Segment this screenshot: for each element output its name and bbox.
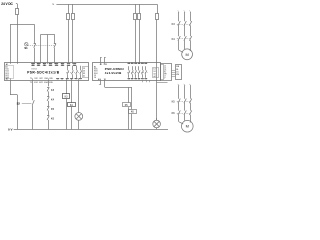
svg-text:24 V DC: 24 V DC: [1, 2, 13, 6]
wire A2 down: [10, 80, 12, 95]
wire S2 branch lower: [32, 105, 34, 129]
wire A1 drop: [10, 25, 12, 63]
U2 top stub A1: [100, 57, 102, 62]
wire 24VDC to fuse: [16, 3, 17, 5]
wire S2 actuator link: [22, 103, 32, 105]
svg-text:S12: S12: [34, 78, 37, 80]
wire 33r to module: [135, 20, 137, 63]
fuse F6: [156, 14, 159, 20]
svg-text:22: 22: [61, 65, 63, 67]
motor M2: [182, 120, 194, 132]
wire coil K6 lower: [131, 114, 133, 130]
wire 23 to module: [72, 20, 74, 63]
contactor coil K4: [68, 103, 76, 107]
U2 terminal stubs: [100, 62, 102, 64]
wire S11 drop: [17, 25, 19, 63]
svg-text:44: 44: [153, 76, 155, 78]
3-phase supply hooks top: [178, 11, 179, 13]
wire lamp2 upper: [156, 118, 158, 120]
wire lamp1 lower: [78, 120, 80, 129]
wires 3-phase lower upper segment: [178, 85, 180, 99]
wire S13 drop: [47, 35, 49, 63]
K5 contacts dashed link: [177, 101, 190, 103]
wire bus2 horizontal: [40, 34, 54, 36]
wire lamp1 upper: [78, 80, 80, 113]
wires into motor2: [178, 115, 180, 122]
indicator lamp H2: [153, 120, 161, 128]
U1 inner function block: [5, 66, 14, 79]
wire bus1 horizontal: [10, 24, 35, 26]
svg-text:4x1/2x2/B: 4x1/2x2/B: [105, 71, 122, 75]
wire coil K3 lower: [66, 98, 68, 129]
svg-text:M: M: [186, 124, 189, 129]
U2 bottom terminal labels: [127, 78, 130, 80]
U2 top terminal labels: [127, 63, 130, 65]
wires 3-phase upper segment: [178, 12, 180, 21]
svg-text:KM: KM: [176, 74, 179, 76]
wire rail end drop: [157, 4, 159, 13]
U1 top terminal labels: [31, 63, 34, 65]
wire S2 branch upper: [32, 80, 34, 100]
wire lamp2 lower: [156, 128, 158, 130]
wire coil K5 lower: [128, 107, 130, 129]
wire drop 23: [72, 4, 74, 13]
connector X2 outline: [176, 65, 182, 80]
wire coil K3 upper: [66, 80, 68, 94]
svg-text:21: 21: [55, 65, 57, 67]
terminal block X1 outline: [161, 64, 172, 81]
wire S22 drop lower: [54, 48, 56, 63]
emergency stop S1 contact b: [54, 43, 56, 45]
wire drop 43r: [139, 4, 141, 13]
svg-text:S2: S2: [17, 101, 21, 105]
svg-text:PSR-SDC4/2x1/B: PSR-SDC4/2x1/B: [27, 70, 60, 74]
emergency stop S1 contact a: [34, 43, 36, 45]
3-phase supply hooks bottom: [178, 84, 179, 86]
wire U2 T1 down: [104, 80, 106, 87]
wire coil K5 upper: [128, 87, 130, 103]
U1 bottom-right terminal labels: [56, 78, 59, 80]
K4 contacts dashed link: [177, 38, 190, 40]
emergency stop actuator S1: [25, 43, 28, 46]
U2 internal contacts: [128, 66, 130, 70]
U2 terminal cell column: [153, 68, 159, 78]
fuse F4: [134, 14, 137, 20]
svg-text:0 V: 0 V: [8, 128, 13, 132]
wire F1 to bus: [17, 15, 19, 25]
wire end drop to box: [156, 20, 158, 121]
wire S1 actuator dashed link: [28, 45, 55, 47]
wire 13 to module: [68, 20, 70, 63]
contactor coil K3: [63, 94, 70, 99]
contactor coil K5: [123, 103, 131, 107]
box A bottom rail stub: [157, 82, 168, 84]
fuse F2: [67, 14, 70, 20]
K6 contacts dashed link: [177, 113, 190, 115]
U2 bottom right stubs: [142, 80, 144, 82]
start button S2 contact: [32, 100, 34, 105]
wire S22 drop upper: [54, 35, 56, 44]
X1 inner bracket: [161, 65, 164, 80]
fuse F3: [72, 14, 75, 20]
svg-text:S1: S1: [24, 46, 28, 50]
contactor K4 main contacts: [178, 36, 180, 41]
U1 internal output contacts: [67, 66, 69, 71]
wire L rail: [56, 4, 157, 6]
wire drop 33r: [135, 4, 137, 13]
fuse F5: [138, 14, 141, 20]
svg-text:S22: S22: [39, 78, 42, 80]
contactor K5 main contacts: [178, 99, 180, 104]
wire coil K4 upper: [71, 80, 73, 103]
wire coil K4 lower: [71, 107, 73, 130]
U2 top stub S35: [104, 57, 106, 62]
contactor coil K6: [129, 110, 137, 114]
U1 terminal cell column: [83, 67, 89, 78]
wire coil bus horizontal: [105, 87, 132, 89]
contactor K3 main contacts: [178, 21, 180, 26]
wire S21 drop: [40, 35, 42, 63]
wire S12 drop upper: [34, 25, 36, 44]
wire A2 elbow: [10, 94, 18, 96]
feedback contacts K3 K4 K5 K6: [47, 87, 49, 89]
svg-text:41: 41: [83, 75, 85, 77]
svg-text:M: M: [185, 52, 188, 57]
wire 0V rail: [14, 129, 168, 131]
U2 stub A2 dead end: [100, 80, 102, 84]
svg-text:S35: S35: [49, 78, 52, 80]
wire drop 13: [68, 4, 70, 13]
fuse F1: [16, 9, 19, 15]
wire 43r to module: [139, 20, 141, 63]
svg-text:31: 31: [32, 65, 34, 67]
extension module U2 outline: [93, 63, 161, 81]
svg-text:14: 14: [94, 77, 96, 79]
wires X1 to X2 links: [171, 70, 175, 72]
wire feedback chain top: [48, 80, 50, 86]
indicator lamp H1: [75, 113, 83, 121]
contactor K6 main contacts: [178, 110, 180, 115]
svg-text:11: 11: [43, 65, 45, 67]
K3 contacts dashed link: [177, 24, 190, 26]
U1 terminal stubs: [10, 62, 12, 64]
svg-text:32: 32: [37, 65, 39, 67]
motor M1: [182, 49, 193, 60]
wire coil K6 upper: [131, 87, 133, 109]
safety relay U1 outline: [5, 63, 89, 81]
svg-text:12: 12: [49, 65, 51, 67]
wires into motor1: [178, 40, 180, 50]
wire S12 drop lower: [34, 48, 36, 63]
svg-text:S34: S34: [44, 78, 47, 80]
svg-text:T1: T1: [30, 78, 32, 80]
